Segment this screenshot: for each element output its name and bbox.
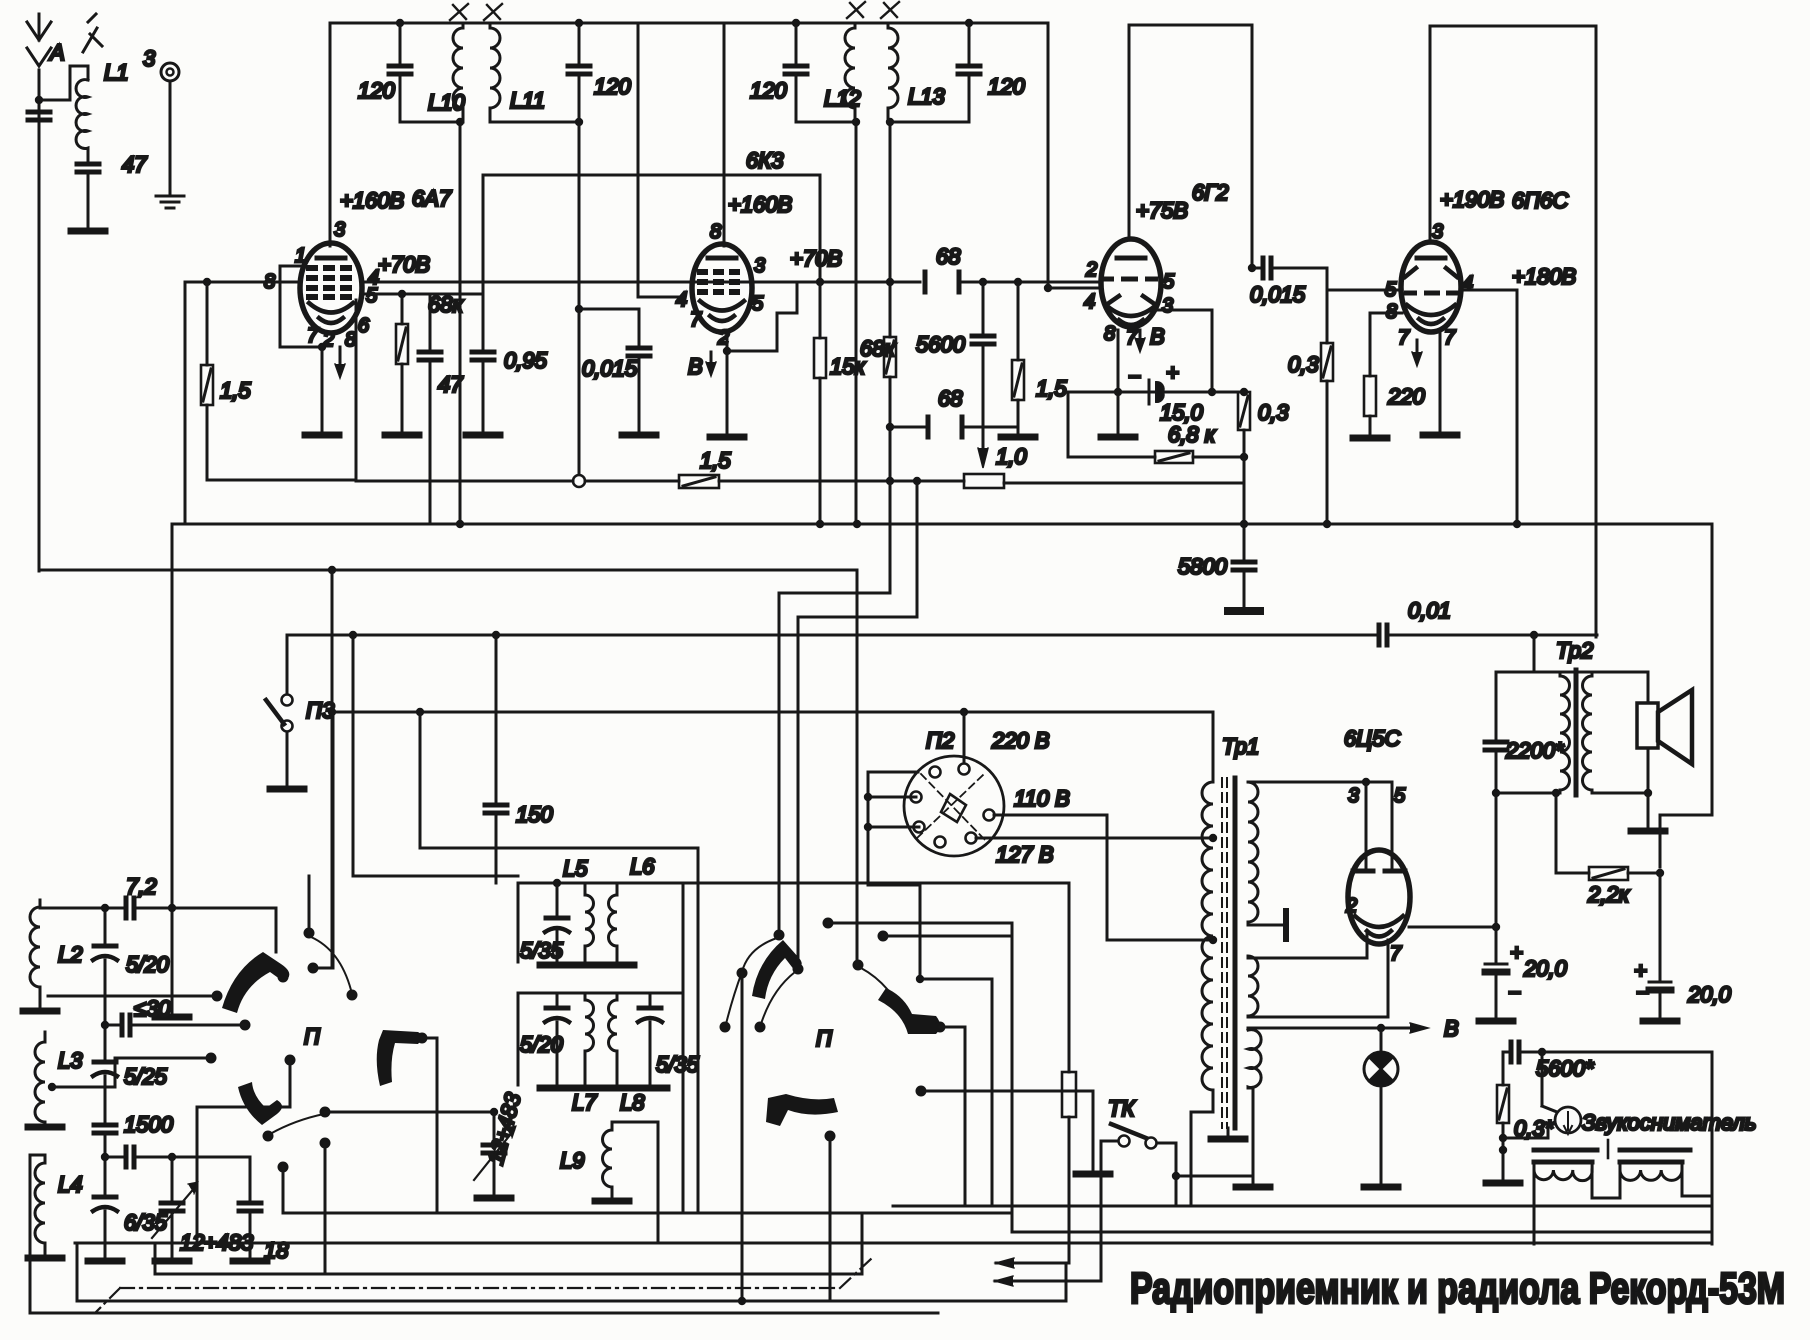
node rail/120-4 [965, 19, 973, 27]
svg-text:20,0: 20,0 [1687, 982, 1732, 1007]
wire mid tuning line [105, 1147, 250, 1167]
svg-text:5/25: 5/25 [124, 1064, 168, 1089]
Tr1 primary bottom lead [1191, 1112, 1213, 1206]
capacitor 2200 [1485, 672, 1507, 797]
coil L2 [30, 900, 40, 1000]
svg-text:L2: L2 [58, 942, 82, 967]
capacitor 120 (IF secondary) [958, 23, 980, 122]
tube 6Ts5S envelope [1348, 850, 1410, 944]
svg-text:110 В: 110 В [1014, 786, 1070, 811]
contact right mid with drop [197, 1055, 296, 1244]
svg-text:5: 5 [1163, 271, 1175, 293]
L3 tap wire [48, 1083, 115, 1091]
wire cathode bias top [1068, 391, 1244, 394]
switch P3 [266, 635, 304, 789]
svg-text:Радиоприемник и радиола Рекорд: Радиоприемник и радиола Рекорд-53М [1130, 1264, 1785, 1313]
capacitor 68 (lower, to AVC line) [890, 417, 1018, 437]
rotor A dots [774, 930, 804, 975]
svg-text:7: 7 [1398, 327, 1410, 349]
coil L9 [603, 1122, 613, 1198]
svg-text:−: − [1636, 980, 1649, 1005]
wire Tr2 top feed [1496, 635, 1648, 672]
wire grid cap 6A7 [329, 23, 332, 246]
contact A3 [755, 1022, 766, 1033]
svg-text:L10: L10 [428, 90, 465, 115]
wire L11 bottom [490, 121, 579, 124]
wire AVC bus [356, 480, 679, 483]
svg-text:L6: L6 [630, 854, 655, 879]
wire L13 lead down [886, 118, 894, 282]
svg-text:1,5: 1,5 [220, 378, 251, 403]
contact A1 [720, 1022, 731, 1033]
svg-text:П: П [816, 1026, 832, 1051]
pin labels 3 5 [1348, 785, 1406, 807]
svg-text:6Г2: 6Г2 [1192, 180, 1228, 205]
resistor 2,2k [1556, 793, 1664, 880]
label +160V 6A7 [340, 186, 452, 213]
terminal circle on AVC bus [573, 475, 585, 487]
svg-text:6/35: 6/35 [124, 1210, 168, 1235]
svg-text:6П6С: 6П6С [1512, 188, 1568, 213]
L4 ground [28, 1250, 62, 1258]
svg-text:4: 4 [1462, 273, 1473, 295]
switch TK [1108, 1096, 1157, 1149]
rotor arm C [766, 1094, 838, 1126]
svg-text:7: 7 [1444, 327, 1456, 349]
trimmer 5/20 second box [540, 993, 574, 1088]
svg-text:L11: L11 [510, 88, 545, 113]
svg-text:8: 8 [710, 221, 721, 243]
svg-text:Звукосниматель: Звукосниматель [1582, 1110, 1756, 1135]
wire 6K3 screen box top [483, 174, 820, 177]
wire L12 lead to bus [852, 118, 860, 524]
Tr1 heater winding 6,3V [1248, 1030, 1261, 1089]
wire 6G2 diode out [1158, 310, 1216, 396]
wire pin1-2 bracket [280, 266, 326, 351]
svg-text:2: 2 [1345, 895, 1357, 917]
pin labels 2 7 [1345, 895, 1402, 965]
6A7 pin labels [264, 219, 379, 351]
wire L13 bottom [888, 121, 969, 124]
coil L13 [888, 23, 898, 122]
svg-text:2200*: 2200* [1505, 738, 1565, 763]
box top L5/L6 [518, 883, 683, 1213]
svg-text:220 В: 220 В [991, 728, 1050, 753]
rotor right dot [417, 1033, 438, 1214]
svg-text:4: 4 [1084, 291, 1095, 313]
Tr1 core ground [1211, 1128, 1245, 1139]
svg-text:0,015: 0,015 [582, 356, 638, 381]
phono transformer windings [1534, 1166, 1682, 1181]
rotor C dot [825, 1131, 836, 1302]
svg-text:5/35: 5/35 [656, 1052, 700, 1077]
L4 top wire [30, 1155, 45, 1232]
rail b with jog [283, 1213, 1712, 1232]
coil L8 [609, 993, 618, 1085]
wire rotor A feed 2 L [798, 477, 921, 966]
wire cathode B+ out [1409, 923, 1500, 931]
resistor 1,5 (osc grid leak) [201, 282, 213, 405]
svg-text:6Ц5С: 6Ц5С [1344, 726, 1400, 751]
contact B2 [916, 1086, 1111, 1175]
wire L2 top / 7,2 line [40, 900, 126, 912]
coil L3 [35, 1032, 45, 1124]
Tr1 HV center tap [1248, 911, 1286, 939]
svg-text:2: 2 [1085, 259, 1097, 281]
wire 6K3 cathode [710, 330, 744, 437]
contact feed left [48, 991, 223, 1002]
svg-text:7: 7 [1390, 943, 1402, 965]
Tr2 secondary [1583, 672, 1593, 793]
svg-text:5600*: 5600* [1536, 1056, 1595, 1081]
labels 20,0 second [1634, 958, 1732, 1007]
wire 6A7 screen loop [207, 300, 356, 480]
coil L1 [76, 66, 88, 152]
wire step y876 [349, 631, 518, 876]
wire bus left drop [155, 282, 189, 1017]
rotor arm right T [377, 1030, 422, 1086]
wire B+ down to filter [1495, 793, 1498, 927]
coil L7 [585, 993, 594, 1085]
long feed contact 2 [878, 931, 1013, 942]
wire right feedback loop [1660, 524, 1712, 867]
svg-text:0,3: 0,3 [1258, 400, 1289, 425]
svg-text:1500: 1500 [124, 1112, 174, 1137]
wire 6P6S pin8 [1370, 313, 1402, 376]
thin arc lower to tuning line [270, 1114, 324, 1134]
capacitor in antenna lead [28, 66, 50, 130]
wire 6A7 cathode to ground [305, 347, 339, 435]
svg-text:П2: П2 [926, 728, 954, 753]
trimmer 5/20 ant [93, 908, 117, 1060]
Tr1 primary [1202, 712, 1213, 1112]
antenna trimmer (lightning mark) [83, 14, 102, 52]
svg-text:L9: L9 [560, 1148, 584, 1173]
resistor 68k* (detector load) [884, 278, 896, 481]
svg-text:68: 68 [936, 244, 961, 269]
wire step y848 [420, 712, 698, 1213]
6K3 anode bar [708, 256, 736, 261]
Tr1 heater bottom lead [1236, 1088, 1270, 1187]
capacitor 0,015 (to 6P6S grid) [1248, 258, 1401, 290]
6G2 screen box [1129, 25, 1252, 268]
svg-text:3: 3 [1162, 295, 1173, 317]
rotor arm lower-left [238, 1082, 282, 1125]
speaker [1637, 672, 1692, 793]
speaker frame ground [1631, 793, 1665, 831]
wire HV to anodes [1248, 778, 1392, 868]
capacitor 68 (coupling to 6G2 grid) [925, 272, 959, 292]
svg-text:5600: 5600 [916, 332, 966, 357]
svg-text:−: − [1508, 980, 1521, 1005]
6A7 anode bar [317, 256, 345, 261]
svg-text:68к: 68к [860, 336, 896, 361]
wire fuse feed [683, 883, 1069, 1072]
wire ground bus (B-) [172, 523, 1712, 526]
tube 6P6S envelope [1401, 242, 1461, 332]
resistor 0,3* [1486, 1052, 1520, 1183]
svg-text:+75В: +75В [1136, 198, 1188, 223]
svg-text:1,0: 1,0 [996, 444, 1027, 469]
capacitor 15,0 electrolytic [1128, 360, 1179, 404]
resistor 6,8k [1155, 451, 1248, 463]
contact left mid [52, 1053, 217, 1088]
svg-text:Тр1: Тр1 [1222, 734, 1259, 759]
svg-text:+190В: +190В [1440, 187, 1504, 212]
capacitor 7,2 [126, 898, 276, 952]
wire antenna down [38, 110, 41, 571]
long feed contact [823, 918, 1013, 1214]
wire Tr2 bottom [1496, 789, 1652, 797]
svg-text:Тр2: Тр2 [1556, 638, 1593, 663]
wire L9 top [612, 1122, 658, 1243]
capacitor <=30 line [105, 1015, 245, 1035]
svg-text:0,3: 0,3 [1288, 352, 1319, 377]
svg-text:3: 3 [334, 219, 345, 241]
rail d [155, 1213, 862, 1274]
contact c [347, 990, 358, 1001]
svg-text:П: П [304, 1024, 320, 1049]
L2 ground [23, 1000, 57, 1011]
contact bottom left stub [278, 1162, 289, 1214]
svg-text:5: 5 [366, 285, 378, 307]
svg-text:6А7: 6А7 [412, 186, 452, 211]
plug dashed diagonals [917, 774, 987, 842]
svg-text:L8: L8 [620, 1090, 645, 1115]
node screen/68k [398, 290, 406, 298]
svg-text:3: 3 [1432, 221, 1443, 243]
phono transformer top bars [1534, 1140, 1690, 1162]
wire 6P6S cathode [1423, 332, 1457, 435]
resistor 1,5 (AVC decoupling) [679, 475, 964, 488]
svg-text:А: А [48, 40, 65, 65]
coil L12 [845, 23, 855, 122]
svg-text:5800: 5800 [1178, 554, 1228, 579]
wire 6A7 screen line [362, 293, 483, 296]
node L12 bus junction [853, 520, 861, 528]
potentiometer 1,0 volume [964, 457, 1244, 488]
svg-text:8: 8 [345, 329, 356, 351]
pilot lamp [1364, 1028, 1398, 1187]
6Ts5S anode bars [1353, 869, 1405, 874]
wiper arrow into pot [978, 448, 988, 468]
TK right wire [1157, 1143, 1253, 1206]
pickup box top/right [1542, 1052, 1712, 1244]
Tr2 core [1574, 670, 1579, 795]
svg-text:L5: L5 [563, 856, 588, 881]
heater arrow 6A7 [335, 347, 345, 378]
coil L4 [35, 1155, 45, 1250]
svg-text:5/35: 5/35 [520, 938, 564, 963]
wire rotor A feed L [779, 481, 890, 935]
svg-text:4: 4 [676, 289, 687, 311]
wire 6G2 cathode [1101, 330, 1135, 437]
heater arrow 6K3 [706, 352, 716, 376]
wire heater pin7 [1248, 940, 1388, 1017]
ground terminal З [143, 46, 184, 208]
svg-text:5: 5 [1394, 785, 1406, 807]
trimmer 5/25 [93, 1062, 117, 1123]
svg-text:+160В: +160В [728, 192, 792, 217]
svg-text:+70В: +70В [378, 252, 430, 277]
resistor 0,3 (second, 6P6S grid leak) [1321, 290, 1333, 528]
svg-text:+: + [1166, 360, 1179, 385]
wire 6A7 grid line (AVC to 6K3/6G2 grid bus) [185, 281, 920, 284]
L3 ground [28, 1126, 62, 1129]
rail a [893, 1205, 1712, 1208]
TK left wire [1101, 1141, 1118, 1281]
wire heater pin2 [1248, 934, 1367, 958]
svg-text:3: 3 [754, 255, 765, 277]
contact <30 line [142, 1020, 251, 1031]
arrow lead 1 [996, 1258, 1069, 1268]
svg-text:+: + [1510, 940, 1523, 965]
node rail/120-3 [792, 19, 800, 27]
arrow lead 2 [995, 1276, 1101, 1286]
capacitor 120 (osc section 1) [389, 23, 411, 122]
capacitor 5600 (IF filter) [972, 278, 994, 452]
capacitor 150 [485, 631, 507, 883]
trimmer 5/35 [540, 879, 574, 965]
resistor 15k [814, 282, 826, 528]
node antenna/L1 [35, 66, 88, 104]
svg-text:В: В [1444, 1016, 1459, 1041]
trimmer 6/35 [88, 1197, 122, 1261]
svg-text:0,95: 0,95 [504, 348, 548, 373]
capacitor 18 [233, 1157, 267, 1261]
wire L10 bottom [400, 121, 463, 124]
plug center key [941, 794, 966, 822]
6P6S pin labels [1385, 221, 1473, 349]
plug P2 body [904, 756, 1004, 856]
svg-text:120: 120 [358, 78, 395, 103]
tube 6K3 envelope [692, 244, 752, 332]
6G2 grid dashes [1101, 277, 1158, 282]
svg-text:L13: L13 [908, 84, 945, 109]
6P6S anode bar [1417, 256, 1445, 261]
capacitor 120 (IF primary) [785, 23, 855, 122]
contact bottom drop [320, 1138, 331, 1275]
labels 20,0 first [1508, 940, 1568, 1005]
rail c [75, 1242, 1712, 1245]
6K3 cathode arcs [700, 301, 744, 321]
svg-text:6,8 к: 6,8 к [1168, 422, 1217, 447]
svg-text:L4: L4 [58, 1172, 82, 1197]
wire heater line drop [328, 570, 336, 968]
rotor arm upper end dot [278, 972, 289, 983]
6Ts5S cathode arcs [1355, 916, 1403, 937]
rotor B dots [853, 960, 946, 1033]
6P6S cathode arcs [1407, 305, 1455, 324]
coil L6 [609, 883, 618, 962]
svg-text:L12: L12 [824, 86, 861, 111]
heater arrow 6G2 [1135, 330, 1145, 352]
svg-text:L1: L1 [104, 60, 128, 85]
svg-text:+180В: +180В [1512, 264, 1576, 289]
capacitor 1500 [94, 1125, 116, 1197]
svg-text:7: 7 [690, 309, 702, 331]
wire 6K3 top feed [638, 23, 684, 297]
Tr1 heater winding 5V [1248, 956, 1258, 1017]
heater arrow 6P6S [1412, 340, 1422, 366]
coil L11 [490, 23, 500, 122]
svg-text:120: 120 [750, 78, 787, 103]
svg-text:5/20: 5/20 [520, 1032, 564, 1057]
svg-text:+70В: +70В [790, 246, 842, 271]
variable capacitor 12:483 section1 [152, 1157, 198, 1261]
svg-text:12÷483: 12÷483 [483, 1089, 526, 1167]
svg-text:68к: 68к [428, 292, 464, 317]
rotor arm upper [222, 952, 289, 1013]
wire y712 bus [332, 708, 1213, 716]
rotor lower end dot [263, 1131, 274, 1142]
capacitor 0,01 [1379, 625, 1387, 645]
label 12:483 vertical [483, 1089, 526, 1167]
rail e [77, 1243, 1066, 1305]
svg-text:127 В: 127 В [996, 842, 1054, 867]
svg-text:6К3: 6К3 [746, 148, 784, 173]
B+ rectangle [1430, 26, 1596, 637]
plug pins [911, 764, 995, 848]
6G2 pin labels [1084, 259, 1175, 349]
resistor 0,3 (first) [1238, 388, 1250, 528]
svg-text:120: 120 [988, 74, 1025, 99]
capacitor 20,0 second [1643, 873, 1677, 1021]
wire L10 lead to bus [456, 118, 464, 528]
rotor arm A [752, 940, 802, 999]
svg-text:0,01: 0,01 [1408, 598, 1451, 623]
resistor 68k (screen) [385, 294, 419, 435]
fuse [1062, 1072, 1076, 1263]
capacitor 120 (osc section 2) [568, 23, 590, 122]
svg-text:+160В: +160В [340, 188, 404, 213]
wire second box top [518, 993, 683, 1085]
wire 220V drop [963, 712, 966, 763]
wire 6,3V heater B line [1248, 1023, 1428, 1033]
svg-text:7,2: 7,2 [126, 874, 157, 899]
wire P2 left box [864, 772, 992, 1206]
trimmer 5/35 second [633, 993, 667, 1088]
svg-text:2,2к: 2,2к [1587, 882, 1631, 907]
tube 6A7 envelope [300, 243, 362, 333]
wire cathode-suppressor jumper [727, 283, 797, 351]
thin arcs A [726, 938, 795, 1024]
rail f [30, 1232, 938, 1313]
svg-text:L7: L7 [572, 1090, 597, 1115]
6P6S grid dashes [1404, 291, 1459, 296]
svg-text:≤30: ≤30 [134, 996, 171, 1021]
wire rotor B out [940, 1027, 965, 1206]
variable capacitor 12:483 section2 [474, 1108, 516, 1198]
thin arc B [861, 968, 888, 990]
svg-text:ТК: ТК [1108, 1096, 1135, 1121]
svg-text:8: 8 [1104, 323, 1115, 345]
svg-text:1,5: 1,5 [700, 448, 731, 473]
Tr2 primary [1560, 672, 1570, 793]
6P6S beam plates [1405, 268, 1457, 277]
tube 6G2 envelope [1101, 239, 1161, 327]
node 120-2 [575, 19, 583, 126]
svg-text:7: 7 [307, 325, 319, 347]
svg-text:5/20: 5/20 [126, 952, 170, 977]
wire 6K3 screen box right / 15k feed [816, 175, 824, 286]
6A7 grids [306, 268, 352, 297]
rotor arm B [878, 988, 940, 1034]
6A7 cathode arcs [309, 303, 353, 323]
wire 6P6S screen [1461, 290, 1521, 528]
wire antenna bottom run [39, 566, 857, 574]
contact tuning [320, 1107, 495, 1118]
